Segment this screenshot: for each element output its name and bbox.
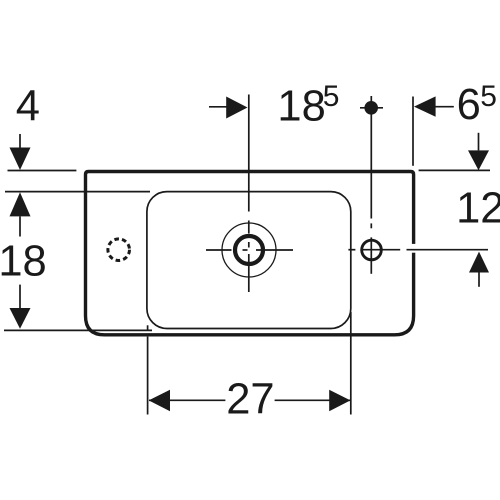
svg-text:5: 5	[480, 80, 497, 113]
svg-text:18: 18	[277, 83, 325, 131]
svg-text:4: 4	[16, 83, 40, 131]
svg-text:18: 18	[0, 238, 47, 286]
svg-text:12: 12	[456, 185, 500, 233]
svg-text:5: 5	[323, 80, 340, 113]
svg-text:27: 27	[226, 375, 274, 423]
svg-text:6: 6	[457, 81, 481, 129]
